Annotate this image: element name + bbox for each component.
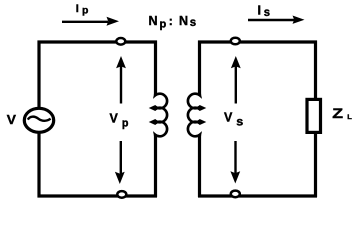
terminal secondary bottom <box>231 191 240 198</box>
label Ip <box>76 3 89 16</box>
inductor primary Np <box>152 88 167 141</box>
current arrow Is <box>248 16 305 24</box>
wire primary right upper <box>154 41 157 96</box>
label Vp <box>110 112 129 130</box>
svg-text:N: N <box>179 14 188 28</box>
svg-text:s: s <box>264 7 270 19</box>
current arrow Ip <box>62 17 119 26</box>
wire secondary left lower <box>198 135 201 197</box>
wire secondary bottom <box>198 194 317 197</box>
svg-text:V: V <box>224 110 233 124</box>
voltage arrow Vs up <box>231 56 241 104</box>
label Vs <box>224 110 243 128</box>
svg-text:V: V <box>7 112 17 127</box>
svg-text:s: s <box>190 17 196 29</box>
wire primary left upper <box>37 41 40 110</box>
wire primary top <box>38 40 158 43</box>
terminal primary top <box>116 38 125 45</box>
wire secondary top <box>198 40 317 43</box>
svg-text:I: I <box>258 3 261 17</box>
voltage arrow Vp down <box>115 141 125 184</box>
svg-text:p: p <box>160 19 167 31</box>
inductor secondary Ns <box>188 88 203 141</box>
svg-text:L: L <box>347 114 352 121</box>
AC source V <box>24 108 53 132</box>
label Np : Ns <box>149 14 197 31</box>
load ZL box <box>307 99 321 132</box>
svg-text:V: V <box>110 112 119 126</box>
svg-text:Z: Z <box>332 106 343 121</box>
svg-text:s: s <box>236 117 243 129</box>
svg-text:I: I <box>76 3 79 15</box>
svg-text::: : <box>169 14 173 28</box>
voltage arrow Vp up <box>116 56 126 104</box>
wire secondary left upper <box>198 41 201 96</box>
wire primary right lower <box>154 135 157 197</box>
svg-text:p: p <box>122 117 129 129</box>
svg-text:p: p <box>82 4 88 16</box>
wire secondary right upper <box>314 41 317 100</box>
voltage arrow Vs down <box>230 141 240 184</box>
svg-text:N: N <box>149 14 158 28</box>
wire primary left lower <box>37 133 40 198</box>
label ZL <box>332 106 352 121</box>
label Is <box>258 3 271 19</box>
terminal secondary top <box>231 38 240 45</box>
wire secondary right lower <box>314 133 317 197</box>
wire primary bottom <box>38 194 158 197</box>
terminal primary bottom <box>117 191 126 198</box>
